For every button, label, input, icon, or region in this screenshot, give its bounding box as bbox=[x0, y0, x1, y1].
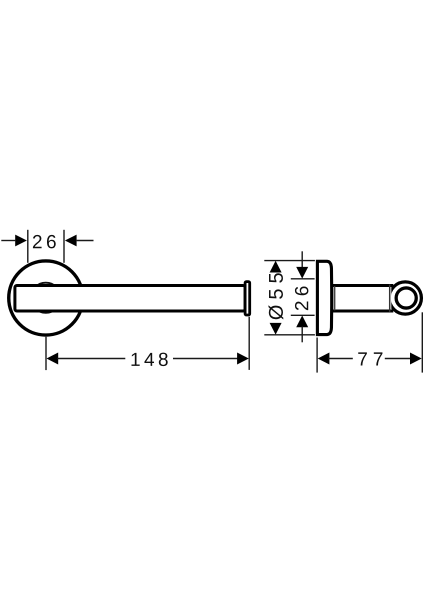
side view: arm top line bbox=[331, 284, 394, 287]
side view: rosette wall plate profile bbox=[317, 261, 331, 334]
dim Ø55: top arrow bbox=[270, 261, 282, 273]
side view: arm bottom line bbox=[331, 310, 394, 313]
dim 26 (front): left extension line bbox=[27, 230, 29, 263]
dim 26 (front): right arrow bbox=[65, 235, 77, 247]
dim 77: dimension line right segment bbox=[385, 358, 412, 360]
front view: roll holder bar bbox=[15, 286, 245, 312]
front view: inner mounting circle (behind bar) bbox=[31, 283, 61, 313]
dim Ø55: bottom extension line bbox=[264, 334, 315, 336]
dim 148: dimension line right segment bbox=[173, 358, 238, 360]
dim 148: value text bbox=[131, 353, 167, 366]
dim 148: left arrow bbox=[47, 353, 59, 365]
side view: collar junction line bbox=[334, 286, 336, 310]
dim 77: value text bbox=[358, 352, 382, 365]
dim 77: left extension line bbox=[316, 338, 318, 373]
dim Ø55: top extension line bbox=[264, 260, 315, 262]
dim 26 (side): value text (rotated) bbox=[295, 286, 308, 310]
side view: ring inner circle bbox=[396, 288, 416, 308]
dim Ø55: value text (rotated) bbox=[268, 273, 283, 319]
side view: arm white body (masks ring left arc) bbox=[331, 287, 391, 309]
dim 26 (side): bottom arrow (pointing up) bbox=[296, 316, 308, 328]
dim Ø55: bottom arrow bbox=[270, 323, 282, 335]
dim 77: dimension line left segment bbox=[328, 358, 353, 360]
dim 148: dimension line left segment bbox=[57, 358, 125, 360]
dim 26 (front): value text bbox=[33, 235, 56, 248]
side view: ring (outer circle, drawn under arm) bbox=[389, 282, 421, 314]
dim 26 (side): bottom extension line bbox=[291, 314, 315, 316]
dim 26 (front): right leader line bbox=[77, 240, 94, 242]
dim 26 (side): top extension line bbox=[291, 278, 315, 280]
dim 26 (side): lower dimension line bbox=[301, 326, 303, 342]
side view: arm end junction line bbox=[389, 285, 391, 313]
dim 26 (front): right extension line bbox=[63, 230, 65, 263]
dim 77: right arrow bbox=[410, 353, 422, 365]
dim 77: left arrow bbox=[318, 353, 330, 365]
dim 148: right arrow bbox=[237, 353, 249, 365]
dim 77: right extension line bbox=[421, 312, 423, 372]
dim 148: left extension line bbox=[45, 337, 47, 370]
dim 26 (front): left arrow bbox=[15, 235, 27, 247]
dim 26 (side): upper dimension line bbox=[301, 251, 303, 267]
front view: bar end cap bbox=[245, 282, 250, 315]
dim 26 (front): left leader line bbox=[1, 240, 15, 242]
front view: wall plate outer circle bbox=[9, 261, 83, 335]
dim 148: right extension line bbox=[248, 317, 250, 370]
dim 26 (side): top arrow (pointing down) bbox=[296, 267, 308, 279]
